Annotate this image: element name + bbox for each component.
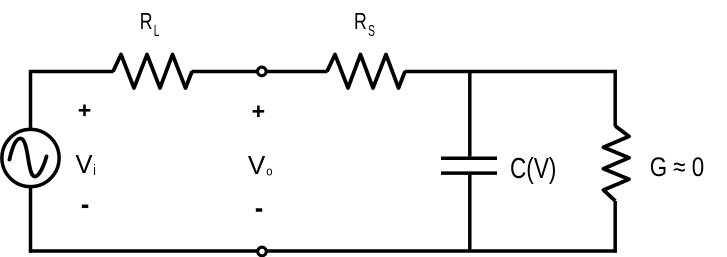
wire: right vertical from top-right corner to resistor G <box>613 70 617 127</box>
capacitor C(V) top plate <box>441 156 497 160</box>
svg-text:S: S <box>368 23 375 40</box>
wire: node Vo to resistor RS <box>262 70 328 74</box>
plus sign at source Vi <box>79 105 91 117</box>
AC voltage source Vi (circle) <box>2 129 59 186</box>
resistor G (vertical) <box>604 126 630 201</box>
node Vo (open terminal) <box>258 67 267 76</box>
resistor RL <box>113 55 192 89</box>
wire: RL to node Vo <box>192 70 262 74</box>
svg-text:R: R <box>140 8 153 34</box>
resistor RS <box>327 55 405 89</box>
svg-text:R: R <box>354 8 367 34</box>
capacitor C(V) bottom plate <box>441 171 497 175</box>
wire: capacitor branch upper (top rail to top plate) <box>468 72 472 157</box>
svg-text:o: o <box>266 164 272 179</box>
svg-text:G ≈ 0: G ≈ 0 <box>650 152 705 182</box>
wire: RS to top-right corner <box>405 70 617 74</box>
wire: bottom rail <box>29 249 617 253</box>
svg-text:i: i <box>93 162 96 179</box>
wire: left vertical from top-left corner down to source top <box>29 72 33 131</box>
wire: capacitor branch lower (bottom plate to bottom rail) <box>468 175 472 251</box>
label RS <box>354 8 375 40</box>
minus sign at node Vo <box>256 208 262 212</box>
plus sign at node Vo <box>253 106 265 118</box>
label Vi <box>76 149 96 179</box>
wire: source bottom stub to bottom-left corner <box>29 187 33 253</box>
AC voltage source Vi (sine wave) <box>10 139 47 177</box>
wire: resistor G to bottom-right corner <box>613 201 617 253</box>
label RL <box>140 8 160 40</box>
svg-text:V: V <box>248 150 266 180</box>
label Vo <box>248 150 273 180</box>
wire: top rail from top-left corner to resistor RL <box>29 70 114 74</box>
svg-text:C(V): C(V) <box>510 153 556 185</box>
svg-text:L: L <box>154 23 160 40</box>
node on bottom rail (open terminal) <box>258 247 267 256</box>
svg-text:V: V <box>76 149 94 179</box>
minus sign at source Vi <box>82 205 89 209</box>
